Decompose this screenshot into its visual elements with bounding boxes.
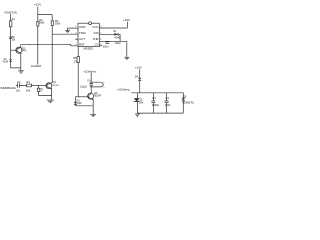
svg-text:R1: R1	[12, 18, 16, 21]
wire +12Vdirect rail	[131, 92, 183, 94]
svg-text:100k: 100k	[39, 21, 45, 25]
wire cap to ground bend	[126, 41, 128, 57]
svg-text:GND: GND	[79, 25, 85, 29]
transistor Q2	[46, 81, 60, 100]
svg-text:100µ: 100µ	[115, 41, 121, 45]
svg-text:+12V: +12V	[135, 66, 142, 70]
resistor R4	[26, 80, 47, 92]
wire OUT stub	[76, 39, 78, 41]
op-amp U1 NE555 box	[78, 22, 99, 51]
svg-text:THR: THR	[93, 37, 99, 41]
capacitor C5 100n	[165, 93, 172, 113]
svg-text:+12Vdirect: +12Vdirect	[83, 69, 96, 73]
svg-text:OUT: OUT	[79, 37, 85, 41]
svg-text:IMMOBILIZE: IMMOBILIZE	[1, 86, 16, 90]
svg-text:C4: C4	[166, 96, 170, 100]
ground (left)	[18, 71, 24, 73]
resistor R2	[37, 18, 45, 26]
svg-text:+12V: +12V	[123, 18, 131, 22]
svg-text:D5: D5	[183, 96, 187, 99]
svg-text:DIS: DIS	[94, 31, 99, 35]
wire ignition bottom bend to ground	[11, 68, 21, 71]
capacitor C3 1000u	[151, 93, 159, 113]
svg-text:1M: 1M	[74, 60, 77, 63]
svg-text:10µ16: 10µ16	[80, 85, 87, 88]
ground (psu)	[135, 114, 140, 116]
svg-text:10n: 10n	[16, 88, 21, 92]
svg-text:VCC: VCC	[92, 25, 98, 29]
svg-text:15V: 15V	[139, 101, 144, 105]
svg-text:NE555: NE555	[83, 47, 93, 51]
svg-text:2: 2	[103, 87, 105, 89]
svg-text:1000µ: 1000µ	[152, 103, 160, 107]
capacitor C1	[103, 41, 121, 49]
wire CV stub	[99, 45, 102, 47]
wire TRIG line	[52, 33, 78, 35]
wire bottom-mid rail	[75, 106, 93, 114]
svg-text:NPN: NPN	[21, 50, 26, 53]
svg-text:R4: R4	[26, 80, 30, 84]
capacitor C4 10u	[80, 79, 93, 88]
ground (Q2 emitter)	[47, 100, 54, 102]
svg-text:+12V: +12V	[34, 3, 42, 7]
svg-text:BC547: BC547	[52, 85, 59, 87]
diode D1	[113, 30, 120, 39]
svg-text:4148: 4148	[114, 35, 120, 39]
relay RE1 (buzzer box)	[90, 82, 105, 89]
wire bottom-right rail	[137, 112, 183, 114]
svg-text:+12Vdirect: +12Vdirect	[117, 88, 130, 92]
svg-text:ALARM: ALARM	[31, 64, 42, 68]
zener D5 BD680	[182, 93, 195, 113]
svg-text:TRIG: TRIG	[79, 31, 87, 35]
svg-text:6: 6	[100, 38, 102, 40]
resistor R1	[9, 18, 15, 27]
wire DIS line	[99, 33, 120, 35]
wire +12V feed	[38, 7, 52, 22]
svg-text:10k: 10k	[26, 88, 31, 92]
diode D2	[3, 59, 12, 64]
svg-text:4148: 4148	[76, 103, 82, 105]
ground (timing cap)	[124, 57, 129, 59]
diode D4	[135, 69, 141, 93]
svg-text:BC547: BC547	[94, 95, 102, 98]
resistor R6	[37, 85, 51, 95]
svg-text:100k: 100k	[55, 21, 61, 25]
svg-text:1: 1	[103, 82, 105, 84]
wire ignition vertical	[10, 14, 12, 68]
wire THR line	[99, 40, 127, 42]
svg-text:CV: CV	[94, 43, 98, 47]
svg-text:Q2: Q2	[53, 81, 57, 84]
wire +12Vdirect drop	[90, 73, 92, 82]
resistor R3	[51, 19, 61, 26]
svg-text:100n: 100n	[103, 46, 109, 49]
zener D6 on ignition line	[9, 37, 16, 42]
svg-text:D4: D4	[135, 76, 139, 79]
svg-text:4148: 4148	[3, 62, 9, 64]
svg-text:C3: C3	[152, 96, 156, 100]
svg-text:BD680 RL: BD680 RL	[183, 101, 195, 104]
capacitor C2	[16, 80, 27, 92]
diode D3	[74, 97, 82, 106]
transistor Q3	[75, 87, 102, 106]
wire R3 bottom through TRIG down to Q2 collector	[51, 26, 53, 83]
svg-text:1k: 1k	[40, 91, 43, 93]
wire R2 bottom / ALARM drop	[37, 26, 39, 64]
zener Z1	[134, 93, 144, 113]
wire RST bend	[71, 44, 78, 46]
ground (mid)	[90, 114, 96, 116]
svg-text:10k: 10k	[12, 39, 17, 41]
ground (GND pin of U1)	[65, 28, 78, 32]
wire main horizontal node (Q1 collector / TRIG / RST)	[21, 43, 70, 45]
transistor Q1	[11, 44, 27, 68]
svg-text:100n: 100n	[165, 103, 171, 107]
wire DIS to THR bend	[119, 34, 121, 41]
svg-text:C2: C2	[17, 80, 21, 84]
resistor R5	[73, 47, 79, 97]
svg-text:D1: D1	[113, 30, 117, 33]
wire VCC to +12V	[99, 22, 127, 28]
